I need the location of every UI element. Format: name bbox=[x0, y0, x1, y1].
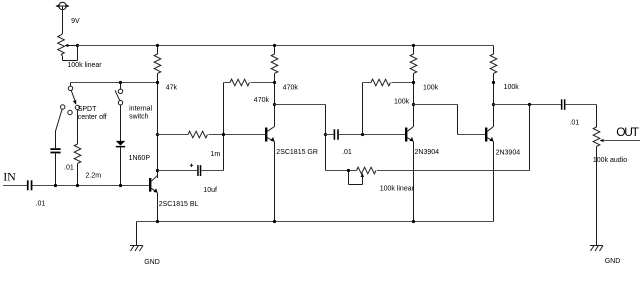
node: 100k top on rail bbox=[412, 44, 415, 47]
resistor 470k (Q2 collector) bbox=[271, 46, 278, 127]
node: Q4 collector output bbox=[492, 103, 495, 106]
node: internal switch on rail bbox=[119, 81, 122, 84]
svg-text:2N3904: 2N3904 bbox=[415, 149, 440, 156]
wire: divider leg to trimpot row bbox=[529, 105, 531, 171]
resistor 100k (Q3 collector) bbox=[410, 46, 417, 127]
capacitor .01 (input) bbox=[3, 180, 149, 190]
node: input row junctions bbox=[54, 184, 122, 187]
label 9V bbox=[71, 18, 80, 25]
resistor 100k (Q4 collector) bbox=[490, 46, 497, 127]
node: coupling junction bbox=[324, 133, 327, 136]
label 2.2m bbox=[86, 172, 102, 179]
power terminal 9V bbox=[55, 2, 69, 35]
label SPDT center off bbox=[78, 106, 107, 121]
switch S1 SPDT center off bbox=[61, 86, 80, 115]
svg-text:100k audio: 100k audio bbox=[593, 157, 627, 164]
wire: Q3 emitter drop bbox=[413, 142, 415, 222]
node: pot wiper junction bbox=[76, 44, 79, 47]
label OUT bbox=[616, 125, 639, 139]
svg-text:OUT: OUT bbox=[616, 125, 639, 139]
node: output divider tap bbox=[528, 103, 531, 106]
label 100k bbox=[423, 85, 439, 92]
node: 47k top on rail bbox=[156, 44, 159, 47]
svg-text:.01: .01 bbox=[342, 149, 352, 156]
label 1m bbox=[211, 151, 221, 158]
node: Q3 base junction bbox=[361, 133, 364, 136]
label .01 bbox=[342, 149, 352, 156]
transistor Q4 2N3904 bbox=[485, 127, 494, 142]
svg-text:2N3904: 2N3904 bbox=[496, 150, 521, 157]
resistor 47k bbox=[154, 46, 161, 179]
label GND bbox=[605, 258, 621, 265]
label 2SC1815 GR bbox=[276, 149, 318, 156]
ground (right) bbox=[590, 246, 603, 252]
node: 1m / 470k / 10uf junction bbox=[222, 133, 225, 136]
svg-text:100k: 100k bbox=[394, 99, 410, 106]
node: Q2 collector output bbox=[273, 103, 276, 106]
resistor 1m (feedback) bbox=[158, 131, 266, 138]
wire: Q4 collector output row bbox=[494, 104, 561, 106]
node: emitter junctions on ground bus bbox=[156, 220, 415, 223]
node: Q2 feedback junction bbox=[273, 81, 276, 84]
label 2N3904 bbox=[496, 150, 521, 157]
transistor Q1 2SC1815 BL bbox=[149, 175, 158, 192]
node: Q3 feedback junction bbox=[412, 81, 415, 84]
node: switch row meets 47k bbox=[156, 81, 159, 84]
ground (left) bbox=[130, 222, 143, 252]
svg-text:2SC1815 GR: 2SC1815 GR bbox=[276, 149, 318, 156]
svg-text:1m: 1m bbox=[211, 151, 221, 158]
resistor 2.2m bbox=[74, 110, 81, 186]
label 100k bbox=[394, 99, 410, 106]
label 100k linear bbox=[67, 62, 102, 69]
node: 470k top on rail bbox=[273, 44, 276, 47]
label 47k bbox=[166, 84, 178, 91]
node: Q1 collector junction bbox=[156, 169, 159, 172]
transistor Q3 2N3904 bbox=[405, 127, 414, 142]
label 100k linear bbox=[380, 185, 415, 192]
svg-text:.01: .01 bbox=[569, 119, 579, 126]
capacitor .01 (SPDT branch) bbox=[50, 148, 60, 185]
node: trimpot left terminal bbox=[347, 169, 350, 172]
capacitor .01 (output) bbox=[561, 99, 597, 110]
svg-text:100k: 100k bbox=[504, 84, 520, 91]
node: Q4 feedback dot bbox=[492, 81, 495, 84]
svg-text:1N60P: 1N60P bbox=[129, 155, 151, 162]
svg-text:switch: switch bbox=[129, 114, 149, 121]
wire: Q4 emitter drop bbox=[493, 142, 495, 222]
label IN bbox=[3, 170, 16, 184]
label 2SC1815 BL bbox=[159, 201, 199, 208]
wire: Q2 collector to coupling cap bbox=[275, 105, 326, 171]
label 100k bbox=[504, 84, 520, 91]
svg-text:100k: 100k bbox=[423, 85, 439, 92]
label 1N60P bbox=[129, 155, 151, 162]
label 10uf bbox=[203, 187, 217, 194]
label internal switch bbox=[129, 106, 152, 121]
svg-text:470k: 470k bbox=[283, 84, 299, 91]
label GND bbox=[144, 259, 160, 266]
svg-text:SPDT: SPDT bbox=[78, 106, 97, 113]
capacitor 10uf bbox=[158, 164, 224, 176]
resistor 100k (Q3 feedback) bbox=[363, 79, 414, 134]
svg-text:47k: 47k bbox=[166, 84, 178, 91]
wire: SPDT left throw to cap bbox=[56, 109, 63, 148]
wire: ground bus bbox=[137, 221, 494, 223]
svg-text:internal: internal bbox=[129, 106, 152, 113]
wire: Q2 emitter drop bbox=[274, 142, 276, 222]
trimpot 100k linear (gain) bbox=[326, 167, 530, 184]
svg-text:100k linear: 100k linear bbox=[67, 62, 102, 69]
svg-text:GND: GND bbox=[605, 258, 621, 265]
label 470k bbox=[283, 84, 299, 91]
switch S2 internal switch bbox=[115, 83, 123, 105]
label .01 bbox=[36, 201, 46, 208]
potentiometer 100k audio (output volume) bbox=[593, 105, 640, 246]
svg-text:GND: GND bbox=[144, 259, 160, 266]
node: Q1 base row feedback tap bbox=[156, 133, 159, 136]
diode D1 1N60P bbox=[116, 105, 125, 186]
wire: switch row bbox=[71, 83, 158, 87]
svg-text:100k linear: 100k linear bbox=[380, 185, 415, 192]
svg-text:.01: .01 bbox=[64, 164, 74, 171]
potentiometer 100k linear (volume) bbox=[58, 35, 78, 61]
label .01 bbox=[569, 119, 579, 126]
svg-text:9V: 9V bbox=[71, 18, 80, 25]
svg-text:IN: IN bbox=[3, 170, 16, 184]
transistor Q2 2SC1815 GR bbox=[265, 127, 275, 142]
node: Q3 collector output bbox=[412, 103, 415, 106]
wire: Q3 collector to Q4 base bbox=[414, 105, 486, 135]
wire: top supply rail bbox=[78, 45, 494, 47]
label 2N3904 bbox=[415, 149, 440, 156]
label .01 bbox=[64, 164, 74, 171]
svg-text:10uf: 10uf bbox=[203, 187, 217, 194]
svg-text:470k: 470k bbox=[254, 97, 270, 104]
svg-text:2.2m: 2.2m bbox=[86, 172, 102, 179]
label 100k audio bbox=[593, 157, 627, 164]
svg-text:2SC1815 BL: 2SC1815 BL bbox=[159, 201, 199, 208]
svg-text:center off: center off bbox=[78, 114, 107, 121]
svg-text:.01: .01 bbox=[36, 201, 46, 208]
capacitor .01 (Q2-Q3 coupling) bbox=[326, 129, 406, 140]
wire: Q1 emitter drop bbox=[157, 193, 159, 222]
wire: feedback node vertical leg bbox=[223, 83, 225, 171]
label 470k bbox=[254, 97, 270, 104]
resistor 470k (Q2 feedback) bbox=[224, 79, 275, 86]
